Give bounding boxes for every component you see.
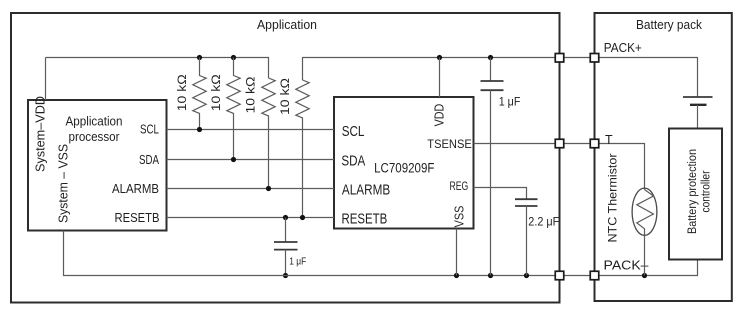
svg-text:1 μF: 1 μF	[289, 256, 306, 268]
svg-text:VSS: VSS	[452, 205, 467, 227]
node top rail R2 junction	[231, 55, 236, 60]
svg-text:VDD: VDD	[432, 104, 447, 127]
svg-text:PACK+: PACK+	[604, 41, 642, 55]
node bottom rail C2 junction	[283, 273, 288, 278]
node SDA/R2 junction	[231, 157, 236, 162]
svg-text:2.2 μF: 2.2 μF	[528, 217, 559, 229]
svg-text:NTC Thermistor: NTC Thermistor	[606, 154, 620, 243]
svg-text:processor: processor	[69, 130, 120, 144]
capacitor C1 1uF (VDD bypass)	[481, 58, 521, 276]
battery cell BT1	[683, 97, 713, 129]
terminal PACK+ application side	[555, 54, 564, 63]
svg-text:PACK–: PACK–	[604, 259, 649, 273]
node bottom rail C3 junction	[524, 273, 529, 278]
node SCL/R1 junction	[197, 127, 202, 132]
node top rail C1 junction	[488, 55, 493, 60]
svg-text:Battery protection: Battery protection	[687, 149, 699, 234]
capacitor C2 1uF (below RESETB)	[274, 218, 306, 276]
terminal PACK- battery side	[590, 271, 599, 280]
wire REG net	[474, 188, 527, 200]
svg-text:1 μF: 1 μF	[499, 95, 521, 109]
label Application processor	[66, 114, 123, 144]
svg-text:System–VDD: System–VDD	[34, 96, 48, 172]
svg-text:T: T	[605, 133, 613, 147]
terminal PACK- application side	[555, 271, 564, 280]
svg-text:ALARMB: ALARMB	[342, 183, 390, 199]
Application enclosure box	[11, 13, 560, 303]
node bottom rail C1 junction	[488, 273, 493, 278]
svg-text:10 kΩ: 10 kΩ	[211, 74, 223, 111]
svg-text:controller: controller	[701, 170, 713, 212]
svg-text:10 kΩ: 10 kΩ	[177, 74, 189, 111]
label Battery protection controller (rotated)	[687, 149, 713, 234]
wire VSS pin to bottom rail	[456, 229, 458, 276]
resistor R2 10 kOhm	[211, 58, 240, 160]
terminal T battery side	[590, 139, 599, 148]
svg-text:ALARMB: ALARMB	[112, 182, 159, 196]
svg-text:System – VSS: System – VSS	[57, 144, 71, 223]
wire top rail left segment	[46, 58, 269, 79]
svg-text:REG: REG	[450, 179, 469, 193]
svg-text:Application: Application	[257, 18, 317, 32]
svg-text:SDA: SDA	[341, 153, 365, 169]
svg-text:10 kΩ: 10 kΩ	[280, 78, 292, 115]
wire top rail right segment to battery	[303, 58, 698, 97]
node PACK- thermistor junction	[642, 273, 647, 278]
wire TSENSE net to thermistor	[474, 144, 645, 190]
node RESETB/R4 junction	[300, 215, 305, 220]
battery protection controller box U2	[669, 129, 722, 260]
svg-text:RESETB: RESETB	[115, 211, 160, 225]
svg-text:Application: Application	[66, 114, 123, 128]
wire VDD pin to top rail	[439, 58, 441, 98]
svg-text:Battery pack: Battery pack	[636, 18, 703, 32]
svg-text:TSENSE: TSENSE	[427, 137, 472, 151]
svg-text:LC709209F: LC709209F	[374, 160, 434, 175]
node bottom rail VSS junction	[454, 273, 459, 278]
svg-text:SCL: SCL	[140, 123, 159, 137]
wire ALARMB net	[167, 188, 335, 190]
node ALARMB/R3 junction	[266, 186, 271, 191]
svg-text:SDA: SDA	[139, 153, 160, 167]
wire RESETB net	[167, 217, 335, 219]
capacitor C3 2.2uF (REG)	[515, 199, 559, 275]
terminal T application side	[555, 139, 564, 148]
svg-text:SCL: SCL	[342, 124, 365, 140]
svg-text:10 kΩ: 10 kΩ	[246, 76, 258, 113]
IC U1 LC709209F box	[334, 97, 474, 229]
thermistor RT1 NTC	[632, 188, 657, 275]
node top rail VDD junction	[437, 55, 442, 60]
node top rail R1 junction	[197, 55, 202, 60]
terminal PACK+ battery side	[590, 54, 599, 63]
wire System-VSS to bottom rail	[64, 231, 698, 276]
wire SCL net	[167, 129, 335, 131]
wire System-VDD to top rail	[45, 58, 47, 101]
svg-text:RESETB: RESETB	[342, 212, 388, 228]
node RESETB/C2 junction	[283, 215, 288, 220]
Battery pack enclosure box	[595, 13, 732, 301]
Application processor box	[28, 100, 167, 231]
wire SDA net	[167, 159, 335, 161]
resistor R1 10 kOhm	[177, 58, 206, 130]
resistor R4 10 kOhm	[280, 78, 309, 218]
resistor R3 10 kOhm	[246, 76, 276, 188]
